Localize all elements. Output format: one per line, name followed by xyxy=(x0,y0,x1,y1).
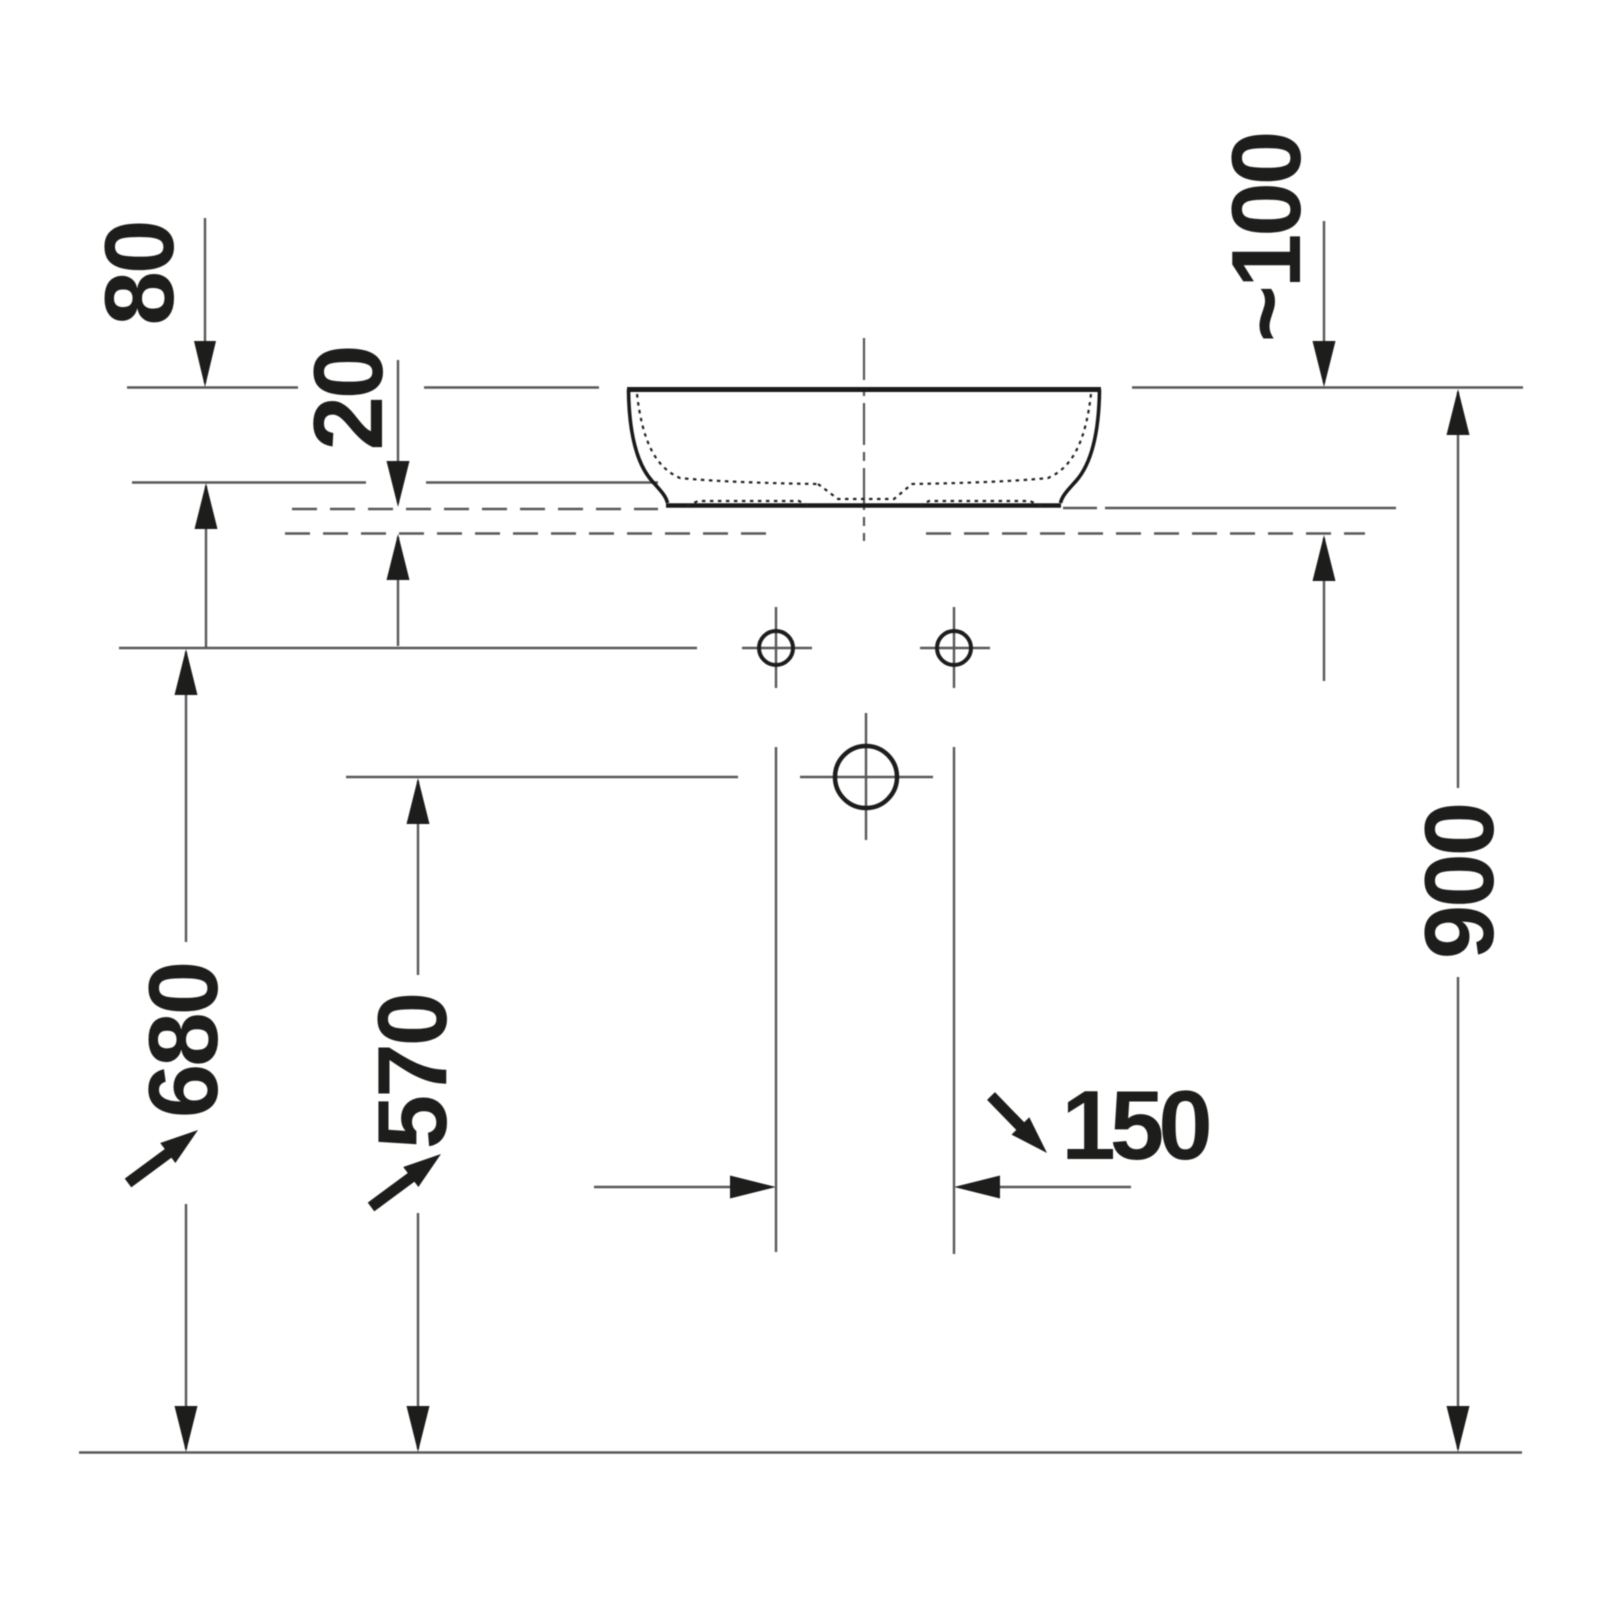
svg-text:80: 80 xyxy=(84,222,194,325)
node lineB-left2 xyxy=(426,481,658,483)
wire dim-80 arrow shaft bottom xyxy=(205,486,207,648)
node arrowhead-150-left xyxy=(954,1176,1000,1199)
node arrowhead-80-down xyxy=(194,341,216,387)
svg-text:900: 900 xyxy=(1404,805,1514,960)
svg-text:150: 150 xyxy=(1061,1070,1209,1180)
node basin inner surface dotted left xyxy=(637,394,818,484)
node dashed1-left : counter top dashed line xyxy=(292,508,658,510)
node basin foot dotted right xyxy=(919,501,1041,506)
wire dim-150 left arrow line xyxy=(594,1186,740,1188)
svg-text:~100: ~100 xyxy=(1211,134,1321,343)
node arrowhead-right-up xyxy=(1313,535,1336,581)
node hole-circle-2 xyxy=(937,631,971,665)
node lineA-right xyxy=(1132,386,1523,388)
wire dim-680 line lower xyxy=(185,1204,187,1449)
node line-648 : hole-center reference line xyxy=(119,647,697,649)
wire right-up arrow shaft under dashed line xyxy=(1323,538,1325,681)
node lineA-left1 : rim level reference line left segment xyxy=(127,386,298,388)
node basin drain recess dotted xyxy=(818,484,912,499)
wire dim-20 arrow shaft top xyxy=(397,360,399,503)
node arrowhead-20-down xyxy=(387,461,410,507)
node tap-hole-circle crosshair horizontal xyxy=(800,776,933,778)
node arrowhead-900-down xyxy=(1447,1406,1470,1452)
wire dim-100 arrow shaft xyxy=(1323,221,1325,383)
node hole-circle-1 crosshair horizontal xyxy=(742,647,812,649)
wire long-vertical-1 xyxy=(775,747,777,1252)
node dashed2-left : counter bottom dashed line xyxy=(285,532,779,534)
node bottom-line : floor line xyxy=(79,1451,1522,1453)
node slant-arrow-570 xyxy=(371,1173,417,1207)
node basin outer wall right xyxy=(1061,390,1100,503)
node arrowhead-900-up xyxy=(1447,389,1470,435)
wire dim-20 arrow shaft bottom xyxy=(397,537,399,646)
node hole-circle-2 crosshair vertical xyxy=(953,607,955,688)
node solid-right-508 : counter level solid line right of basin xyxy=(1105,507,1396,509)
wire dim-680 line upper xyxy=(185,652,187,942)
node tap-hole-circle xyxy=(835,746,897,808)
node basin-centerline xyxy=(863,338,865,541)
node arrowhead-570-up xyxy=(407,778,430,824)
node arrowhead-680-up xyxy=(175,649,198,695)
node arrowhead-680-down xyxy=(175,1406,198,1452)
wire long-vertical-2 xyxy=(953,747,955,1254)
node slant-arrow-680 xyxy=(128,1149,174,1183)
node tap-hole-circle crosshair vertical xyxy=(865,713,867,840)
node arrowhead-20-up xyxy=(387,534,410,580)
node slant-arrow-150 xyxy=(991,1096,1024,1130)
node arrowhead-80-up xyxy=(195,483,218,529)
wire dim-900 line upper xyxy=(1457,392,1459,788)
wire dim-570 line upper xyxy=(417,781,419,975)
node basin bottom xyxy=(666,503,1061,508)
wire dim-150 right arrow line xyxy=(990,1186,1131,1188)
node basin inner surface dotted right xyxy=(910,394,1091,484)
svg-text:20: 20 xyxy=(293,347,403,450)
node hole-circle-1 xyxy=(759,631,793,665)
wire dim-570 line lower xyxy=(417,1213,419,1449)
wire dim-900 line lower xyxy=(1457,977,1459,1449)
node lineA-left2 xyxy=(424,386,599,388)
wire dim-80 arrow shaft top xyxy=(204,218,206,383)
node arrowhead-150-right xyxy=(730,1176,776,1199)
svg-text:680: 680 xyxy=(128,964,238,1119)
node arrowhead-100-down xyxy=(1313,341,1336,387)
node small-dash-508 xyxy=(1063,507,1097,509)
node lineB-left1 : 80-below-rim level line xyxy=(132,481,366,483)
svg-text:570: 570 xyxy=(357,995,467,1150)
node basin outer wall left xyxy=(629,390,668,503)
node basin foot dotted left xyxy=(687,501,809,506)
node line-777 : tap-hole reference line xyxy=(346,776,738,778)
node dashed2-right xyxy=(926,532,1365,534)
node basin rim xyxy=(627,387,1101,392)
node hole-circle-1 crosshair vertical xyxy=(775,607,777,688)
node hole-circle-2 crosshair horizontal xyxy=(920,647,990,649)
node arrowhead-570-down xyxy=(407,1406,430,1452)
